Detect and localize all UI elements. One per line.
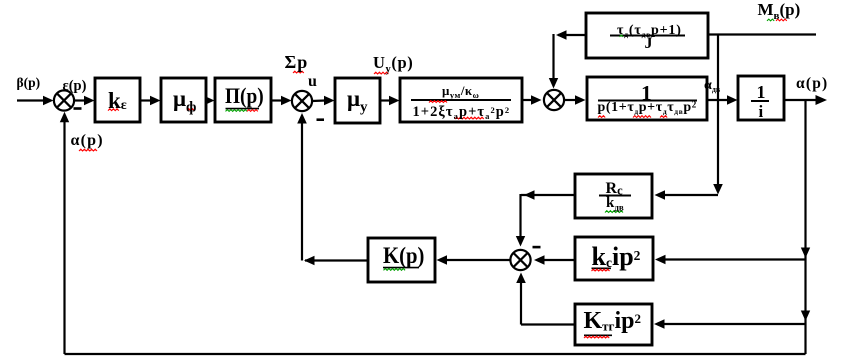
underline+squiggle under k_c xyxy=(592,267,612,269)
block motor 1/p(...) xyxy=(587,77,707,120)
text k_dv xyxy=(606,196,624,213)
squiggles motor denominator xyxy=(598,116,605,118)
fraction bar in motor block xyxy=(598,100,697,102)
wire: input beta(p) to summing node S1 xyxy=(17,99,44,101)
underline+squiggle under K_tg xyxy=(584,334,612,336)
wire: branch to k_c ip2 block xyxy=(664,258,806,260)
arrow down to K_tg branch xyxy=(801,311,810,322)
text K(p) xyxy=(383,244,429,268)
label alpha_dv xyxy=(704,79,720,94)
squiggle under k_dv in R_c block xyxy=(605,211,623,213)
text P(p) xyxy=(225,84,270,108)
squiggle numerator armature xyxy=(429,101,447,103)
wire: k_eps to mu_f xyxy=(140,99,151,101)
arrow up into S2 bottom xyxy=(297,113,307,124)
text k_eps xyxy=(108,89,127,114)
wire: S2 to mu_u xyxy=(312,99,325,102)
underline+squiggle under K(p) xyxy=(383,267,419,269)
label Sigma p xyxy=(285,53,309,72)
underline+squiggle under P(p) xyxy=(226,108,260,110)
label u xyxy=(308,74,317,91)
arrow down at R_c corner xyxy=(713,184,723,195)
text mu_u xyxy=(347,87,368,116)
label eps(p) xyxy=(63,79,87,94)
wire: S1 to block k_eps xyxy=(74,99,85,101)
text J xyxy=(645,36,653,53)
block reducer 1/i xyxy=(738,76,784,120)
text k_c ip2 xyxy=(592,243,641,270)
block K_tg ip2 xyxy=(575,304,652,345)
block armature transfer function xyxy=(400,78,522,122)
text armature denominator xyxy=(413,105,511,121)
text motor denominator xyxy=(598,101,697,116)
fraction bar in R_c block xyxy=(599,195,631,197)
label beta(p) xyxy=(17,76,41,90)
wire: armature block to summing node S3 xyxy=(522,99,532,101)
wire: output takeoff vertical (right) xyxy=(804,100,806,354)
minus sign at S4 xyxy=(533,246,541,249)
summing junction S3 (torque sum) xyxy=(544,90,564,110)
block disturbance tau/J xyxy=(586,13,708,58)
squiggle under U_u xyxy=(374,72,388,74)
label M_v(p) xyxy=(758,1,801,23)
wire: mu_f to P(p) xyxy=(206,99,208,101)
minus sign at S1 xyxy=(74,107,82,110)
squiggle under mu_f subscript xyxy=(187,109,194,111)
label alpha(p) feedback xyxy=(71,133,104,150)
wire: K(p) output corner up to S2 xyxy=(305,259,368,261)
summing junction S4 (feedback sum) xyxy=(510,250,530,270)
wire: k_c ip2 output to S4 xyxy=(540,259,575,261)
wire: takeoff line alpha_dv down from M_v line xyxy=(717,35,719,191)
text mu_f xyxy=(173,87,196,116)
summing junction S2 (u = sum) xyxy=(292,91,312,111)
squiggle under M_v(p) xyxy=(767,19,774,21)
wire: branch to K_tg ip2 block xyxy=(663,323,806,325)
wire: disturbance block output corner xyxy=(558,34,586,36)
arrow into S3 from top xyxy=(549,78,558,89)
text tau/J numerator xyxy=(617,24,682,39)
fraction bar in tau/J block xyxy=(610,35,685,37)
text K_tg ip2 xyxy=(584,309,641,334)
squiggle under alpha(p) feedback xyxy=(79,149,97,151)
fraction bar in armature block xyxy=(411,99,511,101)
block mu_u xyxy=(335,78,380,123)
wire: into R_c block xyxy=(664,194,718,196)
label U_u(p) xyxy=(373,54,413,75)
wire: bottom feedback line xyxy=(65,353,806,355)
block mu_f xyxy=(161,78,206,122)
block P(p) xyxy=(215,78,271,122)
wire: R_c output corner down to S4 xyxy=(521,194,575,196)
wire: 1/i to output alpha(p) xyxy=(784,99,816,101)
block k_c ip2 xyxy=(575,237,653,280)
minus sign at S2 xyxy=(317,118,325,121)
wire: S4 to K(p) xyxy=(446,259,510,261)
squiggle denominator armature xyxy=(455,117,484,119)
text 1 (reducer) xyxy=(757,83,766,102)
wire: motor block to 1/i block xyxy=(707,99,728,101)
label alpha(p) output xyxy=(796,76,828,92)
text armature numerator xyxy=(442,84,479,100)
wire: P(p) to summing node S2 xyxy=(271,99,282,101)
squiggle under k_eps xyxy=(108,109,119,111)
wire: K_tg output corner up to S4 xyxy=(521,323,575,325)
summing junction S1 (beta - alpha) xyxy=(54,90,74,110)
wire: mu_u to armature block xyxy=(380,99,390,101)
squiggle under Sigma-p xyxy=(293,71,304,73)
text motor numerator 1 xyxy=(641,82,652,105)
block K(p) xyxy=(368,238,435,282)
text R_c xyxy=(606,181,623,198)
block k_eps xyxy=(95,78,140,122)
arrow down into S4 top xyxy=(516,236,525,247)
wire: S3 to motor block xyxy=(564,99,576,101)
arrow down to k_c branch xyxy=(801,248,810,259)
green squiggle under tau_d subscript (tau/J block) xyxy=(620,35,624,37)
wire: M_v(p) input line xyxy=(708,33,816,35)
fraction bar in 1/i block xyxy=(751,100,769,102)
block R_c/k_dv xyxy=(575,174,652,218)
text i (reducer) xyxy=(759,103,764,121)
wire: left feedback vertical to S1 xyxy=(63,116,65,354)
